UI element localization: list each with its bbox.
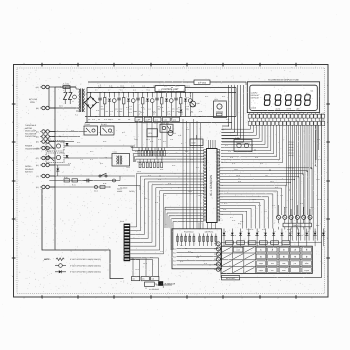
connector pin numbers xyxy=(250,120,321,122)
svg-text:AH SENSOR: AH SENSOR xyxy=(149,288,160,291)
svg-text:IF NOT SPECIFIED 1/4W(R) 50WV(: IF NOT SPECIFIED 1/4W(R) 50WV(C) xyxy=(70,264,101,267)
svg-text:TP-88: TP-88 xyxy=(246,229,250,231)
relay RY-05 box xyxy=(160,121,173,132)
svg-text:R-45: R-45 xyxy=(133,111,136,113)
svg-text:NOISE: NOISE xyxy=(117,190,123,193)
svg-text:Q-87: Q-87 xyxy=(260,163,263,165)
power transformer T-1 xyxy=(75,87,85,117)
wire relay output rows xyxy=(46,131,135,158)
paper wash inside frame xyxy=(14,65,329,298)
svg-text:MOTOR: MOTOR xyxy=(25,127,33,130)
svg-text:R-41: R-41 xyxy=(96,110,99,112)
svg-text:RY-2: RY-2 xyxy=(47,138,51,141)
svg-text:STOP: STOP xyxy=(282,270,286,272)
driver diode column xyxy=(214,242,220,271)
svg-text:POA TM-13: POA TM-13 xyxy=(184,230,193,233)
wire NC-MAIN row xyxy=(118,186,140,191)
svg-text:NC-MAIN: NC-MAIN xyxy=(120,187,128,190)
component row capacitors resistors diodes xyxy=(98,92,192,117)
svg-text:D-2: D-2 xyxy=(181,143,183,145)
transistor array TR-1..TR-6 xyxy=(276,215,312,229)
svg-text:R-59: R-59 xyxy=(186,129,189,131)
connector terminal (H) xyxy=(36,163,55,167)
svg-text:C-7: C-7 xyxy=(108,90,110,92)
wire bottom-left routing xyxy=(42,189,124,279)
surge arrester Z-2 xyxy=(69,87,72,104)
svg-text:Q-33: Q-33 xyxy=(180,261,183,263)
svg-text:C-42: C-42 xyxy=(199,111,202,113)
svg-text:R-72: R-72 xyxy=(196,167,199,169)
svg-text:C-69: C-69 xyxy=(240,221,243,223)
wire bus fan display to IC xyxy=(221,125,282,162)
svg-text:R-12: R-12 xyxy=(188,251,191,253)
connector terminal (B) xyxy=(36,106,55,110)
svg-text:TP-40: TP-40 xyxy=(135,269,139,271)
resistor group A sensor xyxy=(177,234,195,247)
svg-text:C-61: C-61 xyxy=(160,251,163,253)
svg-text:RY-403: RY-403 xyxy=(101,123,107,126)
connector terminal (E) xyxy=(36,140,55,144)
svg-text:D-68: D-68 xyxy=(317,139,320,141)
wire left vertical bus xyxy=(49,87,79,250)
svg-text:(E): (E) xyxy=(36,140,39,143)
buzzer BZ box xyxy=(214,98,227,117)
svg-text:D-80: D-80 xyxy=(255,157,258,159)
value label texture xyxy=(71,96,319,237)
svg-text:R-68: R-68 xyxy=(160,169,163,171)
svg-text:CN-23: CN-23 xyxy=(60,152,64,154)
svg-text:C-43: C-43 xyxy=(97,132,100,134)
keypad cell label DISPLAY xyxy=(233,247,242,252)
svg-text:R-60: R-60 xyxy=(258,205,261,207)
svg-text:VSR 3-1: VSR 3-1 xyxy=(288,166,294,169)
svg-text:120V: 120V xyxy=(30,101,35,104)
svg-text:R-53: R-53 xyxy=(205,96,208,98)
resonator X-1 xyxy=(168,126,176,136)
connector CN-C plugs xyxy=(132,277,159,281)
diode D-8 xyxy=(179,105,182,117)
wire top bus lines xyxy=(85,88,236,123)
svg-text:D-26: D-26 xyxy=(204,263,207,265)
svg-text:C-75: C-75 xyxy=(255,235,258,237)
junction dots xyxy=(54,87,290,191)
label DOOR SENSING SWITCH xyxy=(25,165,34,174)
svg-text:R-54: R-54 xyxy=(150,257,153,259)
svg-text:D-38: D-38 xyxy=(230,157,233,159)
svg-text:D: D xyxy=(308,231,309,233)
svg-text:C-57: C-57 xyxy=(148,167,151,169)
svg-text:(D): (D) xyxy=(36,135,39,138)
svg-text:IF NOT SPECIFIED 1/4W(R) 50WV(: IF NOT SPECIFIED 1/4W(R) 50WV(C) xyxy=(70,258,101,261)
svg-text:DEFROST: DEFROST xyxy=(251,96,260,99)
svg-text:R-24: R-24 xyxy=(225,145,228,147)
svg-text:Q-15: Q-15 xyxy=(190,112,193,114)
svg-text:TP-52: TP-52 xyxy=(234,169,238,171)
svg-text:R-84: R-84 xyxy=(153,112,156,114)
svg-text:C-37: C-37 xyxy=(80,159,83,161)
svg-text:CN-17: CN-17 xyxy=(198,195,202,197)
capacitor C-01 xyxy=(73,95,77,103)
svg-text:D-32: D-32 xyxy=(290,199,293,201)
svg-text:TP-82: TP-82 xyxy=(316,179,320,181)
value label texture 2 xyxy=(60,90,321,272)
wire control unit top boundary xyxy=(88,82,246,85)
svg-text:(CF-280): (CF-280) xyxy=(198,81,206,84)
resistor group B sensor xyxy=(199,234,217,247)
svg-text:Q-51: Q-51 xyxy=(100,163,103,165)
IC-2 box xyxy=(147,129,158,137)
misc parts lower-left texture xyxy=(94,179,116,193)
legend NOTE xyxy=(44,258,101,274)
svg-text:NO.: NO. xyxy=(311,90,315,93)
label texture second band xyxy=(88,118,150,121)
wire IC outputs staircase to keypad xyxy=(220,168,312,229)
svg-text:R-48: R-48 xyxy=(160,107,163,109)
keypad connector plug row xyxy=(221,241,322,245)
IR sensor box xyxy=(145,281,176,286)
svg-text:(K): (K) xyxy=(36,186,39,189)
svg-text:D: D xyxy=(291,231,292,233)
svg-text:CAPACITOR: CAPACITOR xyxy=(25,135,36,138)
svg-text:C-31: C-31 xyxy=(228,151,231,153)
connector row CN-B xyxy=(135,117,179,121)
svg-text:X-1: X-1 xyxy=(174,132,177,135)
svg-text:T-1: T-1 xyxy=(75,114,78,117)
svg-text:Q-9: Q-9 xyxy=(192,147,195,149)
wire CN-E vertical bundle xyxy=(222,85,244,142)
svg-text:R-80: R-80 xyxy=(250,229,253,231)
svg-text:C-72: C-72 xyxy=(272,205,275,207)
svg-text:CN-35: CN-35 xyxy=(158,90,162,92)
svg-text:C-78: C-78 xyxy=(313,231,316,233)
svg-text:C-19: C-19 xyxy=(196,257,199,259)
svg-text:C-79: C-79 xyxy=(158,179,161,181)
display connector row 1 xyxy=(248,114,325,118)
label POWER TRANSFORMER xyxy=(25,145,40,151)
svg-text:C-39: C-39 xyxy=(171,111,174,113)
svg-text:FLUORESCENT DISPLAY TUBE: FLUORESCENT DISPLAY TUBE xyxy=(268,79,299,82)
svg-text:DOOR: DOOR xyxy=(25,165,31,168)
component ref labels above bus xyxy=(98,84,190,87)
keypad KEY UNIT grid xyxy=(221,246,312,273)
sheet border frame xyxy=(12,63,330,299)
svg-text:D: D xyxy=(324,231,325,233)
svg-text:C-66: C-66 xyxy=(223,209,226,211)
svg-text:CN-65: CN-65 xyxy=(137,171,141,173)
svg-text:R-44: R-44 xyxy=(126,107,129,109)
wire CN-A downward feeds xyxy=(130,258,158,277)
svg-text:D-1: D-1 xyxy=(84,93,87,96)
svg-text:R-56: R-56 xyxy=(150,141,153,143)
svg-text:C-63: C-63 xyxy=(144,198,147,200)
svg-text:C-25: C-25 xyxy=(280,195,283,197)
frame zone numbers xyxy=(12,62,329,299)
svg-text:DEF: DEF xyxy=(271,263,274,265)
svg-text:Q-45: Q-45 xyxy=(232,163,235,165)
wire connector stubs xyxy=(250,113,323,122)
label AH SENSOR xyxy=(146,288,160,292)
connector terminal (J) xyxy=(36,174,55,178)
display digit 1 xyxy=(264,95,271,106)
relay RY-403 xyxy=(101,123,115,135)
svg-text:TP-4: TP-4 xyxy=(265,175,268,177)
svg-text:Q-3: Q-3 xyxy=(178,187,181,189)
svg-text:R-62: R-62 xyxy=(77,142,80,144)
svg-text:IC-2: IC-2 xyxy=(149,132,152,135)
relay RY-2 dashed box xyxy=(46,138,69,151)
resistor array RA-1 xyxy=(138,148,165,157)
svg-text:CLK: CLK xyxy=(271,270,274,272)
svg-text:C-33: C-33 xyxy=(117,111,120,113)
label AC LINE 120V xyxy=(29,98,38,104)
connector terminal (G) xyxy=(36,156,55,160)
svg-text:R-74: R-74 xyxy=(155,202,158,204)
label TURNTABLE MOTOR OVEN LAMP FAN MOTOR xyxy=(25,124,37,138)
svg-text:R-89: R-89 xyxy=(316,225,319,227)
svg-text:D: D xyxy=(275,231,276,233)
svg-text:POWER: POWER xyxy=(25,145,33,148)
svg-text:(G): (G) xyxy=(36,157,39,160)
svg-text:Q-63: Q-63 xyxy=(110,119,113,121)
svg-text:R-72: R-72 xyxy=(148,175,151,177)
svg-text:R-42: R-42 xyxy=(171,90,174,92)
svg-text:D-56: D-56 xyxy=(92,119,95,121)
svg-text:R-86: R-86 xyxy=(287,229,290,231)
wire mid bus rows to IC xyxy=(131,146,204,162)
svg-text:R-66: R-66 xyxy=(238,181,241,183)
wire keypad column feeds xyxy=(224,241,323,247)
wire control unit right boundary xyxy=(221,114,322,278)
svg-text:R-71: R-71 xyxy=(190,159,193,161)
svg-text:AUTO: AUTO xyxy=(276,107,281,110)
label box CONTROL UNIT xyxy=(155,86,185,92)
svg-text:IF NOT SPECIFIED 1/4W(R) 50WV(: IF NOT SPECIFIED 1/4W(R) 50WV(C) xyxy=(70,271,101,274)
svg-text:(H): (H) xyxy=(36,164,39,167)
svg-text:R-77: R-77 xyxy=(224,203,227,205)
bridge rectifier D-1 xyxy=(83,93,99,117)
svg-text:D: D xyxy=(258,231,259,233)
svg-text:(J): (J) xyxy=(36,175,39,178)
wire verticals control unit to bus xyxy=(137,122,167,162)
svg-text:C-49: C-49 xyxy=(183,90,186,92)
svg-text:TP-28: TP-28 xyxy=(146,90,150,92)
LED indicator box xyxy=(190,135,203,146)
svg-text:R-42: R-42 xyxy=(104,119,107,121)
display legend right xyxy=(306,90,314,96)
connector terminal (F) xyxy=(36,146,55,150)
svg-text:CN-47: CN-47 xyxy=(143,263,147,265)
svg-text:C-85: C-85 xyxy=(170,139,173,141)
IC-1 microcontroller IZA6002N xyxy=(200,149,223,223)
svg-text:TP-10: TP-10 xyxy=(188,191,192,193)
connector label CF-280 xyxy=(194,80,210,84)
keypad keys xyxy=(256,247,311,272)
svg-text:D-86: D-86 xyxy=(168,183,171,185)
svg-text:R-81: R-81 xyxy=(262,229,265,231)
svg-text:C-73: C-73 xyxy=(250,145,253,147)
connector terminal (K) xyxy=(36,185,55,189)
surge arrester Z-1 xyxy=(59,87,67,108)
reset circuit box xyxy=(234,137,252,152)
svg-text:D-44: D-44 xyxy=(90,159,93,161)
sensor circuit box xyxy=(172,229,222,269)
svg-text:13B PNT-4: 13B PNT-4 xyxy=(205,230,214,233)
label box transistor row xyxy=(283,223,312,227)
svg-text:TP-46: TP-46 xyxy=(310,207,314,209)
fuse F-1 xyxy=(60,83,76,89)
svg-text:F-1 15A: F-1 15A xyxy=(63,83,70,86)
svg-text:TP-64: TP-64 xyxy=(134,139,138,141)
svg-text:PCB TR7-4: PCB TR7-4 xyxy=(293,224,302,227)
svg-text:DEFR: DEFR xyxy=(287,107,292,110)
svg-text:R-18: R-18 xyxy=(275,187,278,189)
svg-text:CN-29: CN-29 xyxy=(154,123,158,125)
svg-text:TP-16: TP-16 xyxy=(60,142,64,144)
svg-text:R-36: R-36 xyxy=(166,123,169,125)
svg-text:D-74: D-74 xyxy=(230,217,233,219)
svg-text:FAN MOTOR: FAN MOTOR xyxy=(25,132,37,135)
svg-text:TRANSFORMER: TRANSFORMER xyxy=(25,147,40,150)
wire sensor box bus rows xyxy=(173,247,219,266)
transistor Q10 xyxy=(190,93,200,107)
svg-text:R-30: R-30 xyxy=(68,163,71,165)
svg-text:R-60: R-60 xyxy=(103,141,106,143)
svg-text:CN-53: CN-53 xyxy=(252,199,256,201)
svg-text:R-66: R-66 xyxy=(139,164,142,166)
svg-text:CN-59: CN-59 xyxy=(236,175,240,177)
svg-text:R-78: R-78 xyxy=(232,220,235,222)
svg-text:(B): (B) xyxy=(36,107,39,110)
svg-text:C-30: C-30 xyxy=(90,98,93,100)
wire sensor outputs bottom xyxy=(156,283,172,288)
label box KEY UNIT xyxy=(222,276,240,280)
transformer T-101 box xyxy=(112,151,130,166)
display outer box xyxy=(247,82,319,113)
display digit 2 xyxy=(274,95,281,106)
label WG-4 NOISE FILTER xyxy=(117,188,135,194)
svg-text:RY-3: RY-3 xyxy=(47,150,51,153)
wire transistor base feeds xyxy=(279,205,311,215)
display digit 5 xyxy=(304,95,311,106)
svg-text:CN-5: CN-5 xyxy=(180,245,183,247)
display connector row 2 xyxy=(248,121,325,125)
display inner box xyxy=(250,85,317,110)
svg-text:CN-77: CN-77 xyxy=(140,112,144,114)
net label texture mesh xyxy=(222,128,294,169)
relay RY-402 xyxy=(84,123,98,135)
capacitor C-30 xyxy=(84,179,93,183)
diode D-5 xyxy=(56,165,59,176)
display digit 3 xyxy=(285,95,292,106)
svg-text:RY-402: RY-402 xyxy=(85,123,91,126)
switch SW-1 xyxy=(99,173,107,177)
connector terminal (C) xyxy=(36,130,55,134)
label NC-MAIN xyxy=(120,187,128,190)
svg-text:TP-58: TP-58 xyxy=(126,167,130,169)
svg-text:T-101: T-101 xyxy=(113,151,117,154)
svg-text:TURNTABLE: TURNTABLE xyxy=(25,124,37,127)
svg-text:TP-22: TP-22 xyxy=(142,123,146,125)
svg-text:R-65: R-65 xyxy=(135,151,138,153)
connector terminal (A) xyxy=(36,85,55,89)
keypad blank diagonal cells xyxy=(222,247,255,273)
svg-text:R-87: R-87 xyxy=(300,235,303,237)
svg-text:Q-21: Q-21 xyxy=(133,90,136,92)
wire IC to sensor box verticals xyxy=(165,207,216,250)
display legend bottom xyxy=(276,107,301,110)
svg-text:TP-70: TP-70 xyxy=(128,112,132,114)
connector terminal (D) xyxy=(36,135,55,139)
svg-text:SENSING: SENSING xyxy=(25,168,34,171)
svg-text:C-67: C-67 xyxy=(264,211,267,213)
svg-text:R-57: R-57 xyxy=(163,141,166,143)
svg-text:(C): (C) xyxy=(36,130,39,133)
svg-text:LB: LB xyxy=(294,263,296,265)
svg-text:NOTE :: NOTE : xyxy=(44,258,51,261)
resistor array RA-2 xyxy=(139,159,162,168)
svg-text:D-8: D-8 xyxy=(178,112,180,114)
svg-text:NV-1: NV-1 xyxy=(59,105,63,108)
svg-text:R-50: R-50 xyxy=(178,107,181,109)
svg-text:BZ-1: BZ-1 xyxy=(215,98,219,101)
svg-text:Q-75: Q-75 xyxy=(318,159,321,161)
diode array keypad xyxy=(223,229,326,241)
svg-text:(A): (A) xyxy=(36,86,39,89)
svg-text:R-78: R-78 xyxy=(158,139,161,141)
svg-text:TIME: TIME xyxy=(282,263,285,265)
svg-text:D-50: D-50 xyxy=(110,132,113,134)
svg-text:CN-11: CN-11 xyxy=(270,181,274,183)
connector CN-A ribbon xyxy=(120,220,130,261)
svg-text:CN-89: CN-89 xyxy=(317,199,321,201)
svg-text:OVEN LAMP: OVEN LAMP xyxy=(25,130,37,133)
wire vertical bundle display to keypad xyxy=(286,125,319,240)
resistor R-30 R-31 xyxy=(64,176,78,187)
svg-text:D: D xyxy=(242,231,243,233)
svg-text:R-69: R-69 xyxy=(172,165,175,167)
svg-text:COOK: COOK xyxy=(251,106,257,109)
svg-text:C-51: C-51 xyxy=(71,130,74,132)
svg-text:R-0: R-0 xyxy=(95,90,97,92)
svg-text:C-48: C-48 xyxy=(178,135,181,137)
svg-text:RY-05: RY-05 xyxy=(161,121,166,124)
fluorescent display tube label xyxy=(268,79,299,82)
svg-text:CN-71: CN-71 xyxy=(146,139,150,141)
wire IC top stubs xyxy=(209,140,216,149)
wire CN-A fanout staircase to IC xyxy=(130,173,204,254)
svg-text:D: D xyxy=(225,231,226,233)
svg-text:R-83: R-83 xyxy=(284,207,287,209)
svg-text:IC-1 IZA6002N: IC-1 IZA6002N xyxy=(209,175,213,196)
display digit 4 xyxy=(294,95,301,106)
wire vertical rail left of IC xyxy=(183,119,201,229)
display legend left xyxy=(251,91,260,109)
wire door switch rows xyxy=(49,165,135,188)
svg-text:SWITCH: SWITCH xyxy=(25,171,33,174)
svg-text:C-36: C-36 xyxy=(141,107,144,109)
svg-text:Q-57: Q-57 xyxy=(122,132,125,134)
relay RY-3 dashed box xyxy=(46,150,69,162)
svg-text:TEMP: TEMP xyxy=(305,263,309,265)
